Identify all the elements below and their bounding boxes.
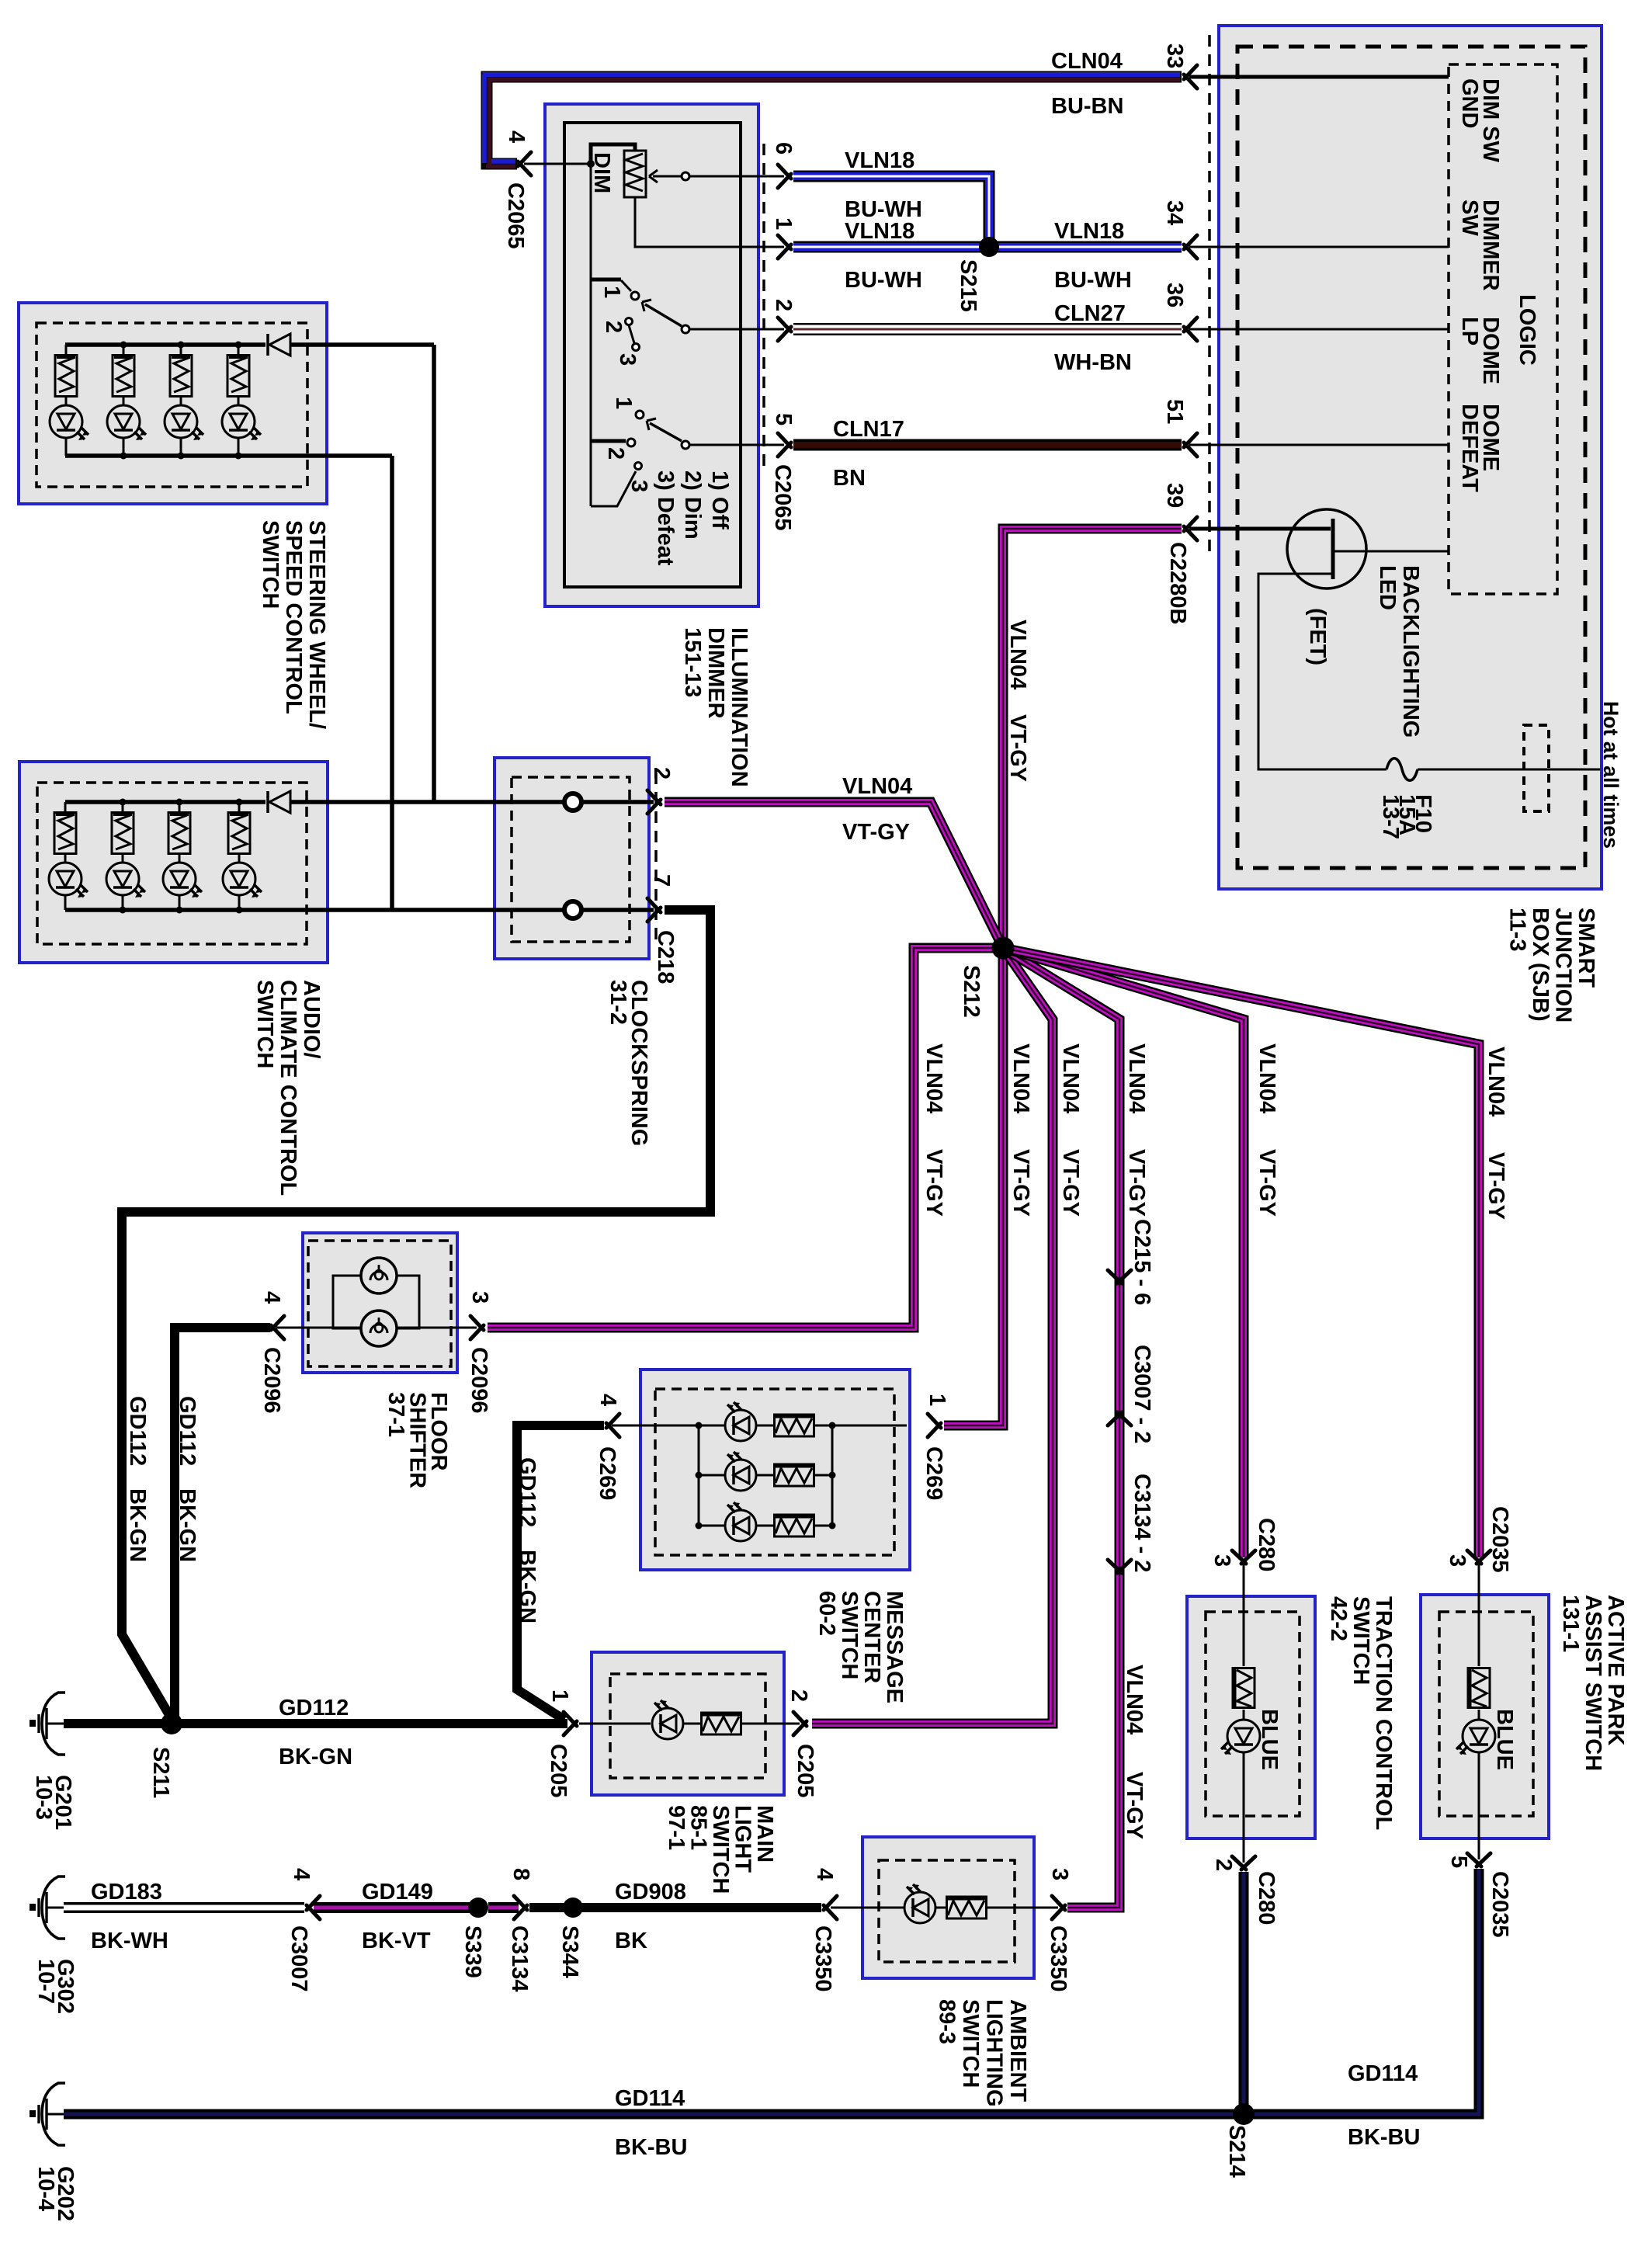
connector arrow main light pin 1 C205 bbox=[564, 1712, 577, 1735]
label floor shifter 37-1 bbox=[383, 1392, 451, 1488]
svg-text:1: 1 bbox=[547, 1689, 572, 1702]
label GD112 horizontal bbox=[279, 1696, 349, 1720]
pin 3 active park bbox=[1445, 1554, 1470, 1567]
wire led-res main light bbox=[683, 1723, 702, 1725]
switch2 common bbox=[682, 441, 689, 449]
LED steering 4 bbox=[222, 405, 261, 440]
LED message center 2 bbox=[725, 1452, 756, 1491]
svg-text:C2035: C2035 bbox=[1487, 1871, 1512, 1937]
label BK-BU left bbox=[615, 2135, 687, 2160]
label S344 bbox=[557, 1925, 582, 1978]
connector arrow SJB pin 39 C2280B bbox=[1184, 517, 1197, 540]
wire bulbs left bracket bbox=[333, 1276, 361, 1328]
wire main light pin2 internal bbox=[741, 1723, 800, 1725]
svg-text:3: 3 bbox=[1209, 1554, 1234, 1567]
pin 6 C2065 bbox=[771, 142, 796, 155]
svg-text:LOGIC: LOGIC bbox=[1515, 294, 1539, 366]
svg-text:5: 5 bbox=[771, 413, 796, 425]
label BU-WH pin1 bbox=[845, 268, 922, 293]
steering LED branch 4 stubs bbox=[238, 345, 240, 456]
traction control switch box bbox=[1187, 1596, 1315, 1838]
illumination dimmer inner rectangle bbox=[564, 123, 741, 587]
splice S212 bbox=[992, 937, 1015, 960]
svg-text:C3350: C3350 bbox=[1046, 1925, 1071, 1991]
clockspring connector dashed line C218 bbox=[654, 773, 658, 943]
LED audio 1 bbox=[49, 863, 88, 898]
splice S214 bbox=[1233, 2103, 1255, 2125]
label CLN27 bbox=[1054, 301, 1126, 326]
pin 1 main light bbox=[547, 1689, 572, 1702]
resistor steering 4 bbox=[227, 356, 249, 397]
svg-text:5: 5 bbox=[1446, 1856, 1471, 1868]
label ambient lighting switch 89-3 bbox=[935, 1999, 1031, 2107]
svg-text:VT-GY: VT-GY bbox=[842, 820, 910, 845]
wire VLN04 S212 to traction control pin3 bbox=[1003, 948, 1244, 1557]
label S211 bbox=[148, 1747, 173, 1798]
svg-text:C3134: C3134 bbox=[507, 1925, 532, 1991]
pin 36 SJB bbox=[1162, 283, 1187, 307]
svg-text:VLN04: VLN04 bbox=[1484, 1047, 1508, 1116]
pin line SJB 34 DIMMER SW bbox=[1189, 246, 1449, 248]
svg-text:S344: S344 bbox=[557, 1925, 582, 1978]
svg-text:S211: S211 bbox=[148, 1747, 173, 1798]
svg-text:VT-GY: VT-GY bbox=[921, 1149, 946, 1217]
LED audio 3 bbox=[163, 863, 202, 898]
svg-text:39: 39 bbox=[1162, 483, 1187, 508]
label VT-GY b7 bbox=[1484, 1152, 1508, 1220]
floor shifter box bbox=[303, 1233, 457, 1373]
audio LED branch 1 stubs bbox=[64, 802, 67, 910]
wire fuse to hot at all times bbox=[1418, 769, 1600, 771]
label main light switch 85-1 97-1 bbox=[664, 1805, 777, 1894]
svg-text:BU-WH: BU-WH bbox=[1054, 268, 1132, 293]
junction message center left bus y1900 bbox=[696, 1472, 703, 1479]
svg-text:4: 4 bbox=[595, 1394, 620, 1406]
svg-text:VLN04: VLN04 bbox=[1255, 1043, 1279, 1113]
wire floor shifter pin4 internal bbox=[276, 1327, 361, 1329]
svg-text:C218: C218 bbox=[653, 930, 678, 984]
svg-text:C280: C280 bbox=[1254, 1518, 1279, 1571]
label GD114 right bbox=[1348, 2061, 1418, 2086]
terminal circle pin6 bbox=[682, 172, 689, 180]
ground G202 bbox=[29, 2083, 65, 2145]
pin 4 ambient bbox=[812, 1868, 837, 1880]
illumination dimmer box bbox=[545, 104, 758, 606]
junction steering bottom bus x233 bbox=[178, 453, 185, 460]
wire traction pin2 internal bbox=[1243, 1752, 1245, 1863]
label DIMMER SW bbox=[1457, 200, 1503, 291]
label C2096 right bbox=[467, 1347, 491, 1413]
splice S211 bbox=[161, 1713, 182, 1734]
LED active park BLUE bbox=[1456, 1720, 1495, 1755]
junction steering bottom bus x159 bbox=[120, 453, 127, 460]
svg-text:1: 1 bbox=[771, 217, 796, 230]
wire GD112 clockspring pin7 trunk to S211 bbox=[122, 910, 710, 1719]
audio LED branch 2 stubs bbox=[122, 802, 124, 910]
clockspring box bbox=[495, 758, 649, 959]
svg-text:BK-GN: BK-GN bbox=[175, 1488, 200, 1562]
audio switch top bus wire bbox=[65, 800, 265, 804]
svg-text:2: 2 bbox=[603, 447, 628, 460]
pin 5 C2065 bbox=[771, 413, 796, 425]
svg-text:VT-GY: VT-GY bbox=[1005, 714, 1030, 782]
label BK-GN v1 bbox=[125, 1488, 150, 1562]
label DIM SW GND bbox=[1457, 78, 1503, 163]
LED message center 3 bbox=[725, 1502, 756, 1541]
svg-text:GD112: GD112 bbox=[279, 1696, 349, 1720]
switch1 terminal 2 bbox=[626, 318, 633, 325]
switch1 blade arrowhead bbox=[642, 300, 651, 311]
resistor message center 1 bbox=[775, 1415, 814, 1436]
svg-text:S215: S215 bbox=[956, 259, 980, 312]
connector arrow C3134 pin 8 bbox=[514, 1896, 527, 1919]
wire VLN18 BU-WH dimmer pin6 to S215 bbox=[793, 176, 989, 241]
svg-text:C205: C205 bbox=[793, 1744, 817, 1797]
label BLUE active park bbox=[1492, 1709, 1517, 1770]
connector arrow active park pin 5 C2035 bbox=[1467, 1853, 1491, 1866]
label BU-WH pin6 bbox=[845, 197, 922, 222]
label VT-GY b5 bbox=[1124, 1149, 1149, 1217]
label (FET) bbox=[1305, 608, 1330, 665]
label BN bbox=[833, 466, 866, 491]
wiper arrowhead bbox=[649, 170, 658, 182]
label BK-GN horizontal bbox=[279, 1745, 352, 1769]
svg-text:7: 7 bbox=[649, 874, 674, 887]
switch2 bus to terminal 3 bbox=[591, 471, 636, 506]
resistor steering 3 bbox=[170, 356, 192, 397]
junction message center left bus y1965 bbox=[696, 1523, 703, 1529]
pin 4 message center bbox=[595, 1394, 620, 1406]
label C269 left bbox=[595, 1446, 619, 1500]
svg-text:BK-VT: BK-VT bbox=[362, 1929, 431, 1953]
wire VLN04 S212 to floor shifter pin3 bbox=[488, 948, 1003, 1328]
bulb floor shifter upper bbox=[361, 1258, 397, 1293]
wire BK-BU traction pin2 to S214 bbox=[1239, 1872, 1249, 2109]
label DIM bbox=[589, 152, 614, 193]
label BU-WH pin34 bbox=[1054, 268, 1132, 293]
traction control dashed outline bbox=[1206, 1612, 1300, 1816]
wire CLN04 BU-BN C2065 pin4 to SJB pin33 bbox=[487, 77, 1182, 164]
steering switch dashed connector outline bbox=[36, 323, 307, 487]
label G201 10-3 bbox=[31, 1775, 75, 1830]
wire bulbs right bracket bbox=[397, 1276, 419, 1328]
svg-text:VT-GY: VT-GY bbox=[1255, 1149, 1279, 1217]
label VT-GY clockspring bbox=[842, 820, 910, 845]
connector arrow clockspring pin 7 bbox=[647, 898, 661, 922]
pin 4 floor shifter bbox=[259, 1291, 284, 1304]
connector arrow C2065 pin 2 bbox=[778, 318, 791, 341]
pin 2 C2065 bbox=[771, 299, 796, 311]
wire GD112 message center pin4 to main light pin1 bbox=[517, 1425, 604, 1720]
junction steering top bus x233 bbox=[178, 342, 185, 349]
switch1 blade bbox=[645, 304, 682, 326]
svg-text:BK: BK bbox=[615, 1929, 647, 1953]
steering LED branch 1 stubs bbox=[65, 345, 68, 456]
label VLN18 pin1 bbox=[845, 219, 914, 244]
diode steering switch bbox=[268, 334, 290, 356]
in-line connector C3134-2 bbox=[1108, 1560, 1131, 1573]
active park assist switch box bbox=[1421, 1595, 1549, 1838]
LED steering 2 bbox=[107, 405, 146, 440]
audio switch dashed connector outline bbox=[37, 783, 307, 944]
svg-text:2: 2 bbox=[601, 321, 626, 333]
label traction control switch 42-2 bbox=[1326, 1596, 1396, 1830]
main light switch box bbox=[592, 1652, 784, 1795]
svg-text:GD112: GD112 bbox=[125, 1396, 150, 1466]
wire audio top bus to clockspring pin 2 bbox=[290, 800, 654, 804]
wire dim pot top bar bbox=[591, 144, 635, 164]
junction audio top bus x231 bbox=[176, 799, 183, 806]
SJB LOGIC dashed box bbox=[1449, 64, 1557, 594]
junction audio bottom bus x158 bbox=[120, 907, 127, 914]
label VLN04 b5 lower bbox=[1122, 1665, 1147, 1734]
pin 1 message center bbox=[925, 1394, 949, 1406]
clockspring pass-through ring pin 2 bbox=[564, 793, 581, 811]
wire CLN17 BN dimmer pin5 to SJB pin51 bbox=[793, 439, 1182, 451]
svg-text:6: 6 bbox=[771, 142, 796, 155]
switch2 feed bar bbox=[591, 439, 626, 443]
label C3350 left bbox=[810, 1925, 835, 1991]
wire active park pin5 internal bbox=[1478, 1752, 1480, 1859]
splice S344 bbox=[563, 1898, 583, 1918]
label VLN04 b4 bbox=[1058, 1043, 1083, 1113]
svg-text:C2280B: C2280B bbox=[1165, 542, 1190, 624]
splice S339 bbox=[468, 1898, 488, 1918]
wire main light pin1 internal bbox=[579, 1723, 651, 1725]
svg-text:GD908: GD908 bbox=[615, 1880, 686, 1904]
label smart junction box 11-3 bbox=[1505, 908, 1599, 1023]
fuse holder dashed box F10 bbox=[1524, 725, 1549, 811]
svg-text:VT-GY: VT-GY bbox=[1484, 1152, 1508, 1220]
ambient lighting dashed outline bbox=[879, 1860, 1015, 1962]
connector arrow floor shifter pin 4 C2096 bbox=[271, 1316, 284, 1339]
label VT-GY feed bbox=[1005, 714, 1030, 782]
connector arrow floor shifter pin 3 C2096 bbox=[470, 1316, 484, 1339]
label F10 15A 13-7 bbox=[1378, 794, 1435, 839]
resistor message center 2 bbox=[775, 1464, 814, 1486]
wire GD149 stub S339 to C3134 bbox=[488, 1902, 519, 1913]
svg-text:GD112: GD112 bbox=[175, 1396, 200, 1466]
svg-text:C2035: C2035 bbox=[1487, 1506, 1512, 1572]
label GD112 v2 bbox=[175, 1396, 200, 1466]
label VT-GY b3 bbox=[1008, 1149, 1033, 1217]
svg-text:BLUE: BLUE bbox=[1492, 1709, 1517, 1770]
svg-text:GD114: GD114 bbox=[615, 2086, 685, 2111]
wire VLN04 S212 to message center pin1 bbox=[944, 948, 1003, 1425]
label BK-GN v2 bbox=[175, 1488, 200, 1562]
wire VLN04 VT-GY SJB pin39 to S212 bbox=[1003, 529, 1182, 939]
splice S215 bbox=[979, 237, 999, 257]
switch1 terminal 1 bbox=[631, 292, 639, 300]
switch2 blade bbox=[650, 423, 682, 441]
wire GD149 BK-VT bbox=[314, 1902, 474, 1913]
message center right bus bbox=[831, 1425, 834, 1526]
svg-text:VLN04: VLN04 bbox=[1124, 1043, 1149, 1113]
svg-text:VLN18: VLN18 bbox=[845, 219, 914, 244]
connector arrow message center pin 1 C269 bbox=[928, 1414, 941, 1437]
connector C2280B dashed line bbox=[1208, 35, 1211, 555]
label C2035 bottom bbox=[1487, 1871, 1512, 1937]
label BK bbox=[615, 1929, 647, 1953]
LED audio 2 bbox=[106, 863, 145, 898]
label C3134 bbox=[507, 1925, 532, 1991]
steering wheel/speed control switch box bbox=[19, 303, 327, 504]
label C205 right bbox=[793, 1744, 817, 1797]
audio switch bottom bus wire to clockspring pin 7 bbox=[65, 908, 654, 912]
label DOME LP bbox=[1457, 317, 1503, 384]
label steering wheel/speed control switch bbox=[258, 520, 329, 729]
junction steering top bus x159 bbox=[120, 342, 127, 349]
label VLN04 b3 bbox=[1008, 1043, 1033, 1113]
svg-text:51: 51 bbox=[1162, 399, 1187, 424]
svg-text:BLUE: BLUE bbox=[1257, 1709, 1282, 1770]
label VLN04 b2 bbox=[921, 1043, 946, 1113]
wire to switch1 terminal 1 bbox=[621, 280, 631, 291]
connector arrow main light pin 2 C205 bbox=[793, 1712, 807, 1735]
label VT-GY b5 lower bbox=[1122, 1772, 1147, 1839]
resistor steering 1 bbox=[55, 356, 77, 397]
pin 3 ambient bbox=[1047, 1868, 1072, 1880]
label S339 bbox=[460, 1925, 485, 1978]
main light switch dashed outline bbox=[610, 1674, 765, 1778]
pin 33 SJB bbox=[1162, 43, 1187, 68]
potentiometer DIM bbox=[624, 151, 646, 197]
svg-text:C3007: C3007 bbox=[286, 1925, 311, 1991]
row1 to pin1 bbox=[814, 1425, 907, 1427]
label BK-GN v3 bbox=[515, 1550, 540, 1623]
smart junction box (SJB) bbox=[1219, 26, 1602, 889]
svg-text:4: 4 bbox=[289, 1868, 314, 1880]
label message center switch 60-2 bbox=[814, 1591, 907, 1703]
pin line SJB 33 DIM SW GND bbox=[1189, 75, 1449, 79]
svg-text:VLN04: VLN04 bbox=[1008, 1043, 1033, 1113]
row3 to bus bbox=[814, 1525, 832, 1527]
label VT-GY b2 bbox=[921, 1149, 946, 1217]
row2 stub bbox=[699, 1474, 725, 1477]
pin line SJB 36 DOME LP bbox=[1189, 328, 1449, 331]
svg-text:CLN04: CLN04 bbox=[1051, 49, 1123, 74]
label GD183 bbox=[91, 1880, 162, 1904]
label VLN04 b6 bbox=[1255, 1043, 1279, 1113]
in-line connector C3007-2 bbox=[1108, 1412, 1131, 1425]
label 2 switch2 bbox=[603, 447, 628, 460]
svg-text:3: 3 bbox=[467, 1291, 492, 1304]
audio LED branch 3 stubs bbox=[179, 802, 181, 910]
svg-text:GD183: GD183 bbox=[91, 1880, 162, 1904]
LED traction control BLUE bbox=[1221, 1720, 1260, 1755]
svg-text:VT-GY: VT-GY bbox=[1058, 1149, 1083, 1217]
svg-text:2: 2 bbox=[771, 299, 796, 311]
wire VLN04 S212 to ambient lighting pin3 bbox=[1003, 948, 1119, 1908]
row2 to bus bbox=[814, 1474, 832, 1477]
pin 8 C3134 bbox=[508, 1868, 533, 1880]
junction steering bottom bus x307 bbox=[235, 453, 242, 460]
wire dimmer pin 5 out bbox=[689, 444, 784, 446]
connector arrow C2065 pin 1 bbox=[778, 235, 791, 259]
label 2 switch1 bbox=[601, 321, 626, 333]
switch2 terminal 3 bbox=[635, 463, 642, 470]
svg-text:1: 1 bbox=[611, 397, 636, 409]
connector arrow message center pin 4 C269 bbox=[606, 1414, 619, 1437]
in-line connector C215-6 bbox=[1108, 1270, 1131, 1283]
wire VLN04 clockspring pin2 to S212 bbox=[665, 802, 1003, 948]
svg-text:C2065: C2065 bbox=[770, 464, 795, 530]
ground G302 bbox=[29, 1877, 65, 1939]
svg-text:1: 1 bbox=[925, 1394, 949, 1406]
label BU-BN bbox=[1051, 94, 1123, 119]
label CLN17 bbox=[833, 417, 904, 442]
wire GD183 BK-WH bbox=[64, 1902, 304, 1913]
switch2 terminal 1 bbox=[636, 411, 644, 418]
wire traction pin3 internal bbox=[1243, 1564, 1245, 1666]
label LOGIC bbox=[1515, 294, 1539, 366]
label BK-VT bbox=[362, 1929, 431, 1953]
ground G201 bbox=[29, 1693, 65, 1755]
svg-text:C2065: C2065 bbox=[503, 182, 528, 248]
resistor message center 3 bbox=[775, 1515, 814, 1536]
svg-text:VLN18: VLN18 bbox=[1054, 219, 1124, 244]
svg-text:2: 2 bbox=[786, 1689, 811, 1702]
svg-text:3: 3 bbox=[1445, 1554, 1470, 1567]
switch2 blade arrowhead bbox=[647, 418, 656, 430]
pin line SJB 51 DOME DEFEAT bbox=[1189, 444, 1449, 446]
svg-text:VLN04: VLN04 bbox=[1122, 1665, 1147, 1734]
wire pot wiper bbox=[653, 175, 681, 178]
SJB inner dashed outline bbox=[1237, 47, 1585, 868]
connector arrow C3007 pin 4 bbox=[307, 1896, 320, 1919]
connector arrow SJB pin 33 bbox=[1184, 65, 1197, 89]
pin 2 traction bbox=[1211, 1859, 1236, 1871]
LED message center 1 bbox=[725, 1402, 756, 1441]
label 1 switch2 bbox=[611, 397, 636, 409]
wire active park pin3 internal bbox=[1478, 1564, 1480, 1666]
active park dashed outline bbox=[1439, 1612, 1533, 1816]
svg-text:4: 4 bbox=[812, 1868, 837, 1880]
label WH-BN bbox=[1054, 350, 1132, 375]
audio LED branch 4 stubs bbox=[238, 802, 241, 910]
wire ambient pin3 internal bbox=[986, 1907, 1058, 1909]
svg-text:1: 1 bbox=[599, 286, 624, 298]
label GD149 bbox=[362, 1880, 433, 1904]
connector arrow SJB pin 51 bbox=[1184, 433, 1197, 457]
fuse F10 squiggle bbox=[1386, 759, 1418, 781]
svg-text:BK-GN: BK-GN bbox=[279, 1745, 352, 1769]
LED steering 1 bbox=[50, 405, 88, 440]
svg-text:BK-WH: BK-WH bbox=[91, 1929, 168, 1953]
wire message center row1 bbox=[612, 1425, 725, 1427]
label BACKLIGHTING LED bbox=[1375, 565, 1423, 738]
switch1 feed bar bbox=[591, 278, 621, 282]
connector arrow SJB pin 36 bbox=[1184, 318, 1197, 341]
svg-text:VLN04: VLN04 bbox=[842, 774, 912, 799]
svg-text:VT-GY: VT-GY bbox=[1008, 1149, 1033, 1217]
label C3134 - 2 bbox=[1130, 1474, 1154, 1572]
label C2065 right bbox=[770, 464, 795, 530]
label 3 switch2 bbox=[626, 480, 651, 492]
pin 34 SJB bbox=[1162, 200, 1187, 225]
svg-text:VT-GY: VT-GY bbox=[1124, 1149, 1149, 1217]
label G202 10-4 bbox=[33, 2166, 78, 2221]
wire FET drain to logic bbox=[1333, 550, 1449, 553]
message center switch box bbox=[640, 1370, 910, 1570]
wire res-led traction bbox=[1243, 1710, 1245, 1720]
svg-text:C3007 - 2: C3007 - 2 bbox=[1130, 1345, 1154, 1443]
wire steering bottom bus down to audio bottom bus bbox=[390, 456, 394, 910]
svg-text:BK-GN: BK-GN bbox=[515, 1550, 540, 1623]
svg-text:VLN04: VLN04 bbox=[1005, 620, 1030, 689]
resistor traction control bbox=[1233, 1668, 1255, 1708]
svg-text:BK-BU: BK-BU bbox=[615, 2135, 687, 2160]
